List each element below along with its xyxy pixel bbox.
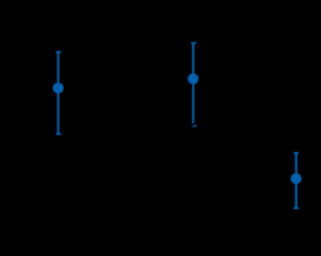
error bar series point 3 [294,153,299,208]
marker point 1 [53,83,64,94]
marker point 3 [291,173,302,184]
error bar 3 bottom cap [294,207,299,209]
error bar 1 bottom cap [56,133,61,135]
error bar series point 1 [56,52,61,134]
dark notch on bar 1 [56,67,58,69]
error bar 2 vertical line [192,43,194,126]
error bar series point 2 [191,43,196,126]
error bar 3 top cap [294,152,299,154]
marker point 2 [188,73,199,84]
error bar 2 bottom cap [191,125,196,127]
error bar 3 vertical line [295,153,297,208]
black diagonal overlay across bar 2 bottom cap [190,122,198,127]
error bar 2 top cap [191,42,196,44]
error bar 1 vertical line [57,52,59,134]
error bar 1 top cap [56,51,61,53]
